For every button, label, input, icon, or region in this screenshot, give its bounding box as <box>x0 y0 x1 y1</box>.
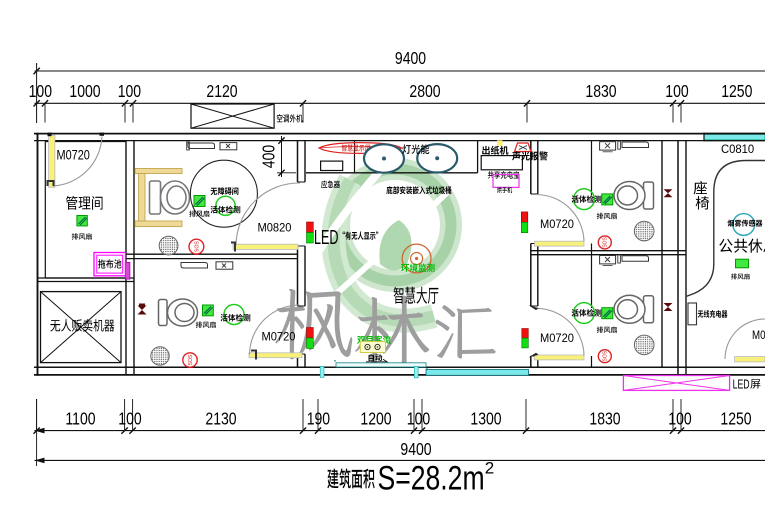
svg-text:100: 100 <box>665 81 688 101</box>
floor drain right room 2 <box>634 335 654 355</box>
LED occupancy indicator left top <box>307 222 314 233</box>
smoke sensor circle <box>733 214 755 236</box>
svg-text:100: 100 <box>118 81 141 101</box>
dispenser box accessible room <box>220 143 237 150</box>
liveness detection right room 1 <box>574 189 595 210</box>
svg-text:S=28.2m: S=28.2m <box>378 459 485 497</box>
valve icon shaft room 1 <box>664 189 673 197</box>
floor drain right room 1 <box>634 221 654 241</box>
svg-text:SOS: SOS <box>603 236 609 247</box>
toilet right room 2 <box>614 295 654 323</box>
exhaust fan lower-left room <box>203 305 214 316</box>
svg-text:400: 400 <box>259 145 279 168</box>
door M0720 right room 1 <box>535 241 585 246</box>
label 无障碍间 <box>211 188 218 195</box>
overall dim line 9400 top <box>35 70 765 72</box>
wall W1 between left column and toilet room <box>125 141 127 375</box>
label 底部安装嵌入式垃圾桶 <box>386 186 392 194</box>
valve icon on W1 wall <box>138 304 147 315</box>
svg-text:100: 100 <box>668 409 691 429</box>
svg-text:1250: 1250 <box>720 409 751 429</box>
svg-text:M0720: M0720 <box>57 147 90 163</box>
svg-text:2800: 2800 <box>409 81 440 101</box>
svg-text:1000: 1000 <box>69 81 100 101</box>
svg-text:1200: 1200 <box>360 409 391 429</box>
magenta pipe marker on W1 wall <box>125 262 130 279</box>
svg-text:1100: 1100 <box>65 409 95 429</box>
hall label 智慧大厅 <box>394 287 404 304</box>
wall between accessible room and lower-left toilet room <box>126 253 298 255</box>
air conditioner outdoor unit crossed box <box>191 104 274 128</box>
LED occupancy indicator left bottom <box>307 328 314 339</box>
grab bars accessible toilet <box>135 169 182 174</box>
area text 建筑面积S=28.2m2 <box>327 469 338 489</box>
SOS button lower-left room <box>183 353 197 367</box>
dispenser box lower-left room <box>216 262 233 269</box>
sound-light alarm icon <box>515 143 532 152</box>
door M0820 yellow leaf <box>233 244 298 249</box>
svg-text:LED: LED <box>314 226 338 249</box>
wheelchair turning circle <box>190 160 257 227</box>
right toilet room 2 fixtures <box>600 256 616 264</box>
right toilet room 1 fixtures <box>600 142 616 150</box>
svg-text:9400: 9400 <box>395 48 426 68</box>
wall between the two right toilet rooms <box>531 250 686 252</box>
svg-text:1830: 1830 <box>585 81 616 101</box>
svg-text:1830: 1830 <box>589 409 620 429</box>
svg-text:M0: M0 <box>752 329 765 342</box>
svg-text:M0720: M0720 <box>540 333 574 345</box>
label 应急器 <box>321 180 327 188</box>
label 声光报警 <box>512 151 520 160</box>
svg-text:9400: 9400 <box>400 439 431 459</box>
label 共享充电宝 <box>488 171 494 179</box>
wall W4a right of toilets <box>661 141 663 368</box>
LED screen magenta crossed box <box>623 376 729 391</box>
label 灯光能 <box>402 144 410 153</box>
management room inner box <box>45 142 126 279</box>
bench outline public rest area <box>686 161 765 297</box>
bottom dim line 1 <box>35 430 765 432</box>
door arc M0720 lower-left <box>250 305 300 355</box>
label 座椅 vertical <box>694 181 707 194</box>
door M0720 management room yellow leaf <box>49 135 55 187</box>
binocular people counter 双目客流 <box>357 336 365 344</box>
exhaust fan right room 2 <box>602 308 613 319</box>
svg-text:M0720: M0720 <box>540 219 574 231</box>
svg-text:C0810: C0810 <box>721 143 755 156</box>
hall right wall W3 <box>530 141 532 368</box>
environment monitor 环境监测 <box>402 244 431 273</box>
vending machine crossed box 无人贩卖机器 <box>41 292 122 363</box>
door arc management room <box>53 137 102 187</box>
top wall <box>34 133 765 135</box>
svg-text:M0720: M0720 <box>262 331 296 343</box>
paper dispenser 出纸机 <box>497 140 503 146</box>
top dim line segments <box>35 102 765 104</box>
LED occupancy indicator right bottom <box>522 329 529 339</box>
svg-text:M0820: M0820 <box>258 222 292 234</box>
smart display red lens 智慧显示屏 <box>319 143 402 154</box>
label 公共休息 <box>719 239 732 253</box>
towel rail lower-left room <box>181 263 208 269</box>
door M0720 lower-left yellow leaf <box>249 353 302 358</box>
soap dispenser rect on counter <box>321 161 343 170</box>
gray watermark 枫林汇 <box>275 289 352 359</box>
floor drain lower-left room <box>151 347 169 365</box>
svg-text:100: 100 <box>29 81 52 101</box>
SOS right room 1 <box>598 236 611 249</box>
glass panel bottom right of entrance <box>426 370 529 376</box>
exhaust fan accessible room <box>194 196 205 207</box>
liveness detection circle accessible room <box>216 196 235 215</box>
svg-text:2130: 2130 <box>205 409 236 429</box>
wash basin 1 <box>364 144 404 172</box>
floor drain accessible room <box>159 236 178 255</box>
svg-text:2: 2 <box>485 459 494 478</box>
valve icon shaft room 2 <box>664 303 673 311</box>
right toilet rooms partition <box>591 141 593 368</box>
toilet lower-left room <box>159 299 198 326</box>
liveness detection circle lower-left room <box>224 305 244 325</box>
towel rail accessible room <box>188 143 215 149</box>
entrance jamb ticks cyan <box>320 366 324 377</box>
hand dryer magenta box 烘手机 <box>493 175 519 188</box>
door M0720 right room 2 <box>535 355 585 360</box>
window C0810 top right <box>704 134 765 140</box>
svg-text:1300: 1300 <box>470 409 501 429</box>
svg-text:SOS: SOS <box>194 241 200 252</box>
SOS button accessible room <box>189 239 204 254</box>
hall counter <box>306 172 478 174</box>
svg-text:190: 190 <box>307 409 330 429</box>
management room bottom wall <box>38 277 135 279</box>
svg-text:1250: 1250 <box>721 81 752 101</box>
svg-text:100: 100 <box>118 409 141 429</box>
wash basin 2 <box>417 144 457 172</box>
liveness detection right room 2 <box>574 303 595 324</box>
door arc rest area <box>725 319 765 359</box>
exhaust fan 排风扇 management room <box>77 216 87 226</box>
svg-text:SOS: SOS <box>603 350 609 361</box>
toilet right room 1 <box>614 182 654 210</box>
svg-text:2120: 2120 <box>206 81 237 101</box>
SOS right room 2 <box>598 350 611 363</box>
svg-text:100: 100 <box>407 409 430 429</box>
entrance sliding door panel <box>336 363 426 367</box>
exhaust fan right room 1 <box>602 194 613 205</box>
pipe shaft wall lines <box>677 141 679 375</box>
bottom wall <box>34 366 765 368</box>
room label 管理间 <box>66 196 77 210</box>
svg-text:SOS: SOS <box>188 354 194 365</box>
400 dimension <box>281 136 283 177</box>
exhaust fan rest area <box>736 259 749 268</box>
LED occupancy indicator right top <box>521 212 528 222</box>
mop basin 拖布池 magenta box <box>94 253 126 276</box>
wireless charger <box>688 303 697 325</box>
door arc M0820 <box>236 183 300 245</box>
accessible toilet <box>150 181 190 214</box>
svg-text:LED: LED <box>733 378 750 392</box>
green logo watermark <box>312 157 452 321</box>
left outer wall <box>37 133 39 376</box>
hall left wall W2 <box>297 141 299 368</box>
bottom dim line 9400 <box>35 459 765 461</box>
